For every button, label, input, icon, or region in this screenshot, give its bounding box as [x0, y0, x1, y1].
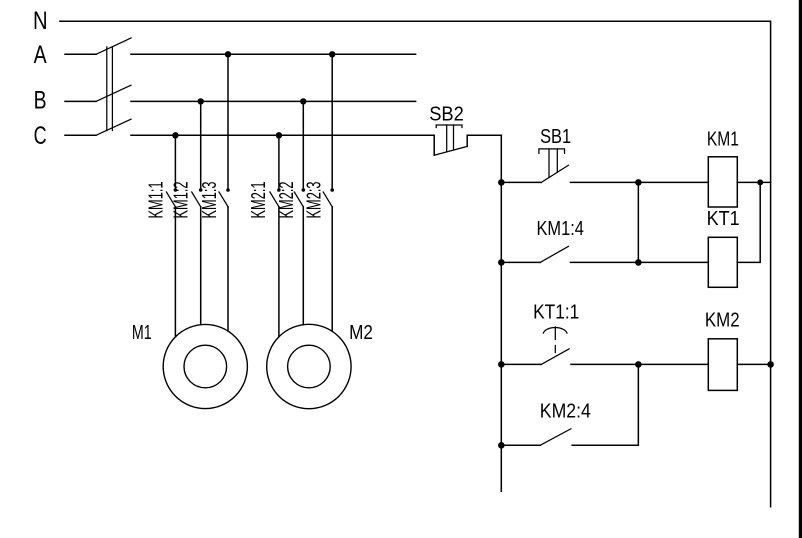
svg-text:C: C [34, 122, 47, 150]
svg-text:KM1: KM1 [707, 129, 739, 151]
svg-text:KT1:1: KT1:1 [533, 302, 579, 324]
svg-text:KM2:3: KM2:3 [304, 182, 326, 219]
svg-text:KM1:4: KM1:4 [537, 218, 584, 240]
svg-text:N: N [33, 7, 48, 35]
svg-text:SB2: SB2 [429, 103, 464, 125]
svg-text:A: A [34, 41, 47, 69]
svg-text:KM2: KM2 [705, 310, 740, 332]
svg-text:KM2:2: KM2:2 [276, 182, 298, 219]
svg-text:KM1:1: KM1:1 [145, 182, 167, 219]
svg-text:KM2:4: KM2:4 [540, 400, 591, 422]
svg-text:M2: M2 [349, 322, 373, 344]
svg-text:SB1: SB1 [540, 126, 571, 148]
svg-text:KT1: KT1 [707, 208, 740, 230]
svg-text:KM2:1: KM2:1 [248, 182, 270, 219]
svg-text:KM1:2: KM1:2 [171, 182, 193, 219]
svg-text:KM1:3: KM1:3 [199, 182, 221, 219]
svg-text:M1: M1 [132, 322, 152, 344]
svg-text:B: B [34, 87, 47, 115]
